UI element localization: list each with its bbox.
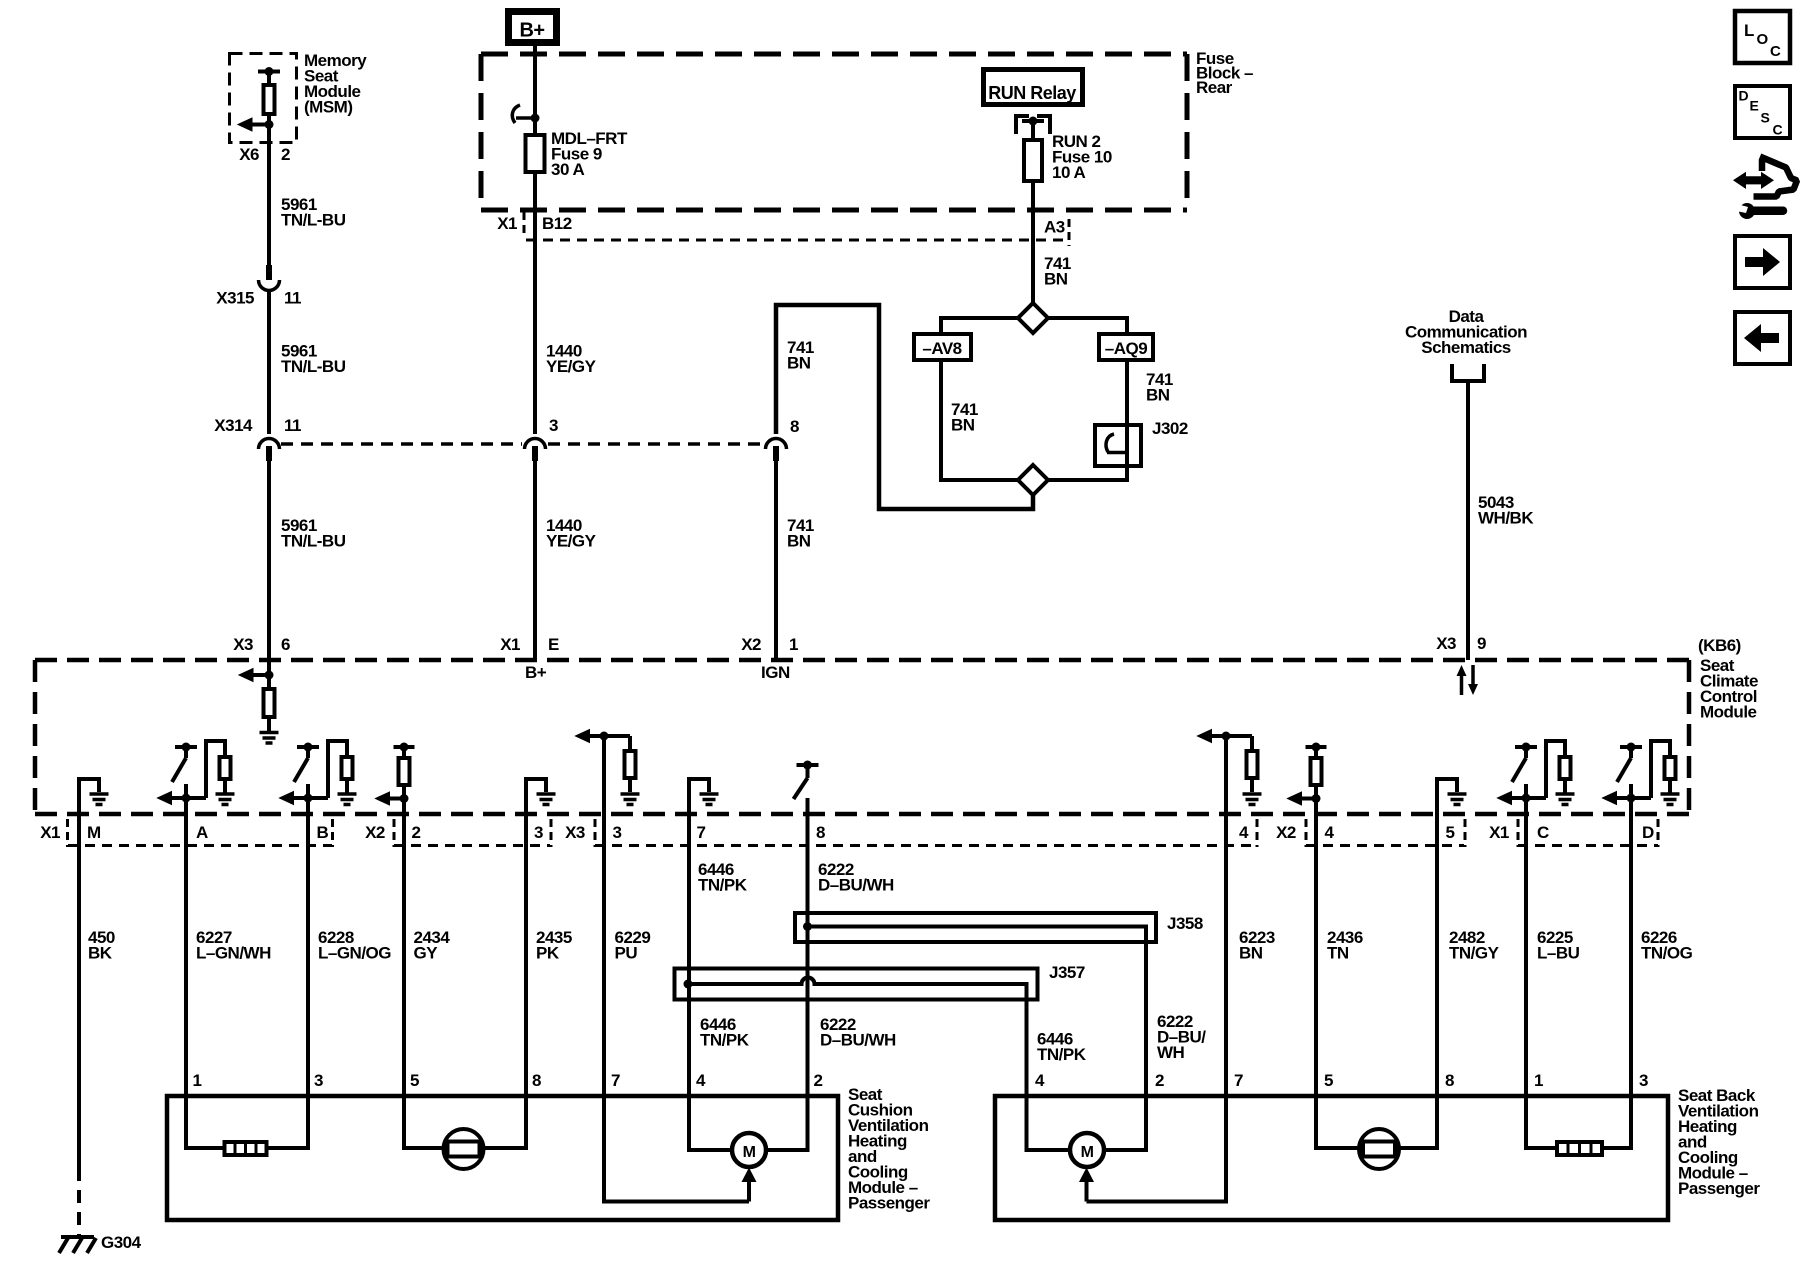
next page icon bbox=[1735, 236, 1790, 288]
SCCM top pin labels X2 1 / IGN bbox=[741, 635, 798, 682]
svg-text:X1: X1 bbox=[500, 635, 520, 654]
ground bbox=[216, 794, 235, 805]
wire 2482 TN/GY bbox=[1399, 816, 1437, 1148]
Seat Back module box bbox=[995, 1096, 1668, 1220]
svg-text:B: B bbox=[317, 823, 329, 842]
blower motor left bbox=[732, 1133, 766, 1167]
svg-text:L–GN/WH: L–GN/WH bbox=[196, 944, 271, 963]
wire label 741 BN bbox=[787, 516, 814, 551]
splice J357 box bbox=[675, 969, 1038, 1000]
motor feed arrow left bbox=[742, 1168, 757, 1202]
LOC icon bbox=[1735, 11, 1790, 63]
wire 6226 TN/OG bbox=[1602, 816, 1631, 1148]
wire loop return 741 BN bbox=[776, 305, 1033, 509]
wire 2435 PK bbox=[484, 816, 527, 1148]
svg-text:X1: X1 bbox=[40, 823, 60, 842]
wire label 6223 BN bbox=[1239, 928, 1275, 963]
Data Communication Schematics label bbox=[1405, 307, 1527, 357]
svg-text:3: 3 bbox=[549, 416, 558, 435]
wire 6225 L-BU bbox=[1526, 816, 1557, 1148]
svg-text:7: 7 bbox=[611, 1071, 620, 1090]
SCCM driver output X3-3 bbox=[576, 730, 636, 817]
wire 2436 TN bbox=[1316, 816, 1359, 1148]
dashed link X314 row bbox=[281, 442, 763, 446]
svg-text:2: 2 bbox=[281, 145, 290, 164]
ground internal X3-6 bbox=[260, 733, 279, 744]
MSM internal resistor bbox=[264, 72, 275, 115]
wire label 741 BN bbox=[951, 400, 978, 435]
svg-text:BN: BN bbox=[951, 416, 975, 435]
svg-text:YE/GY: YE/GY bbox=[546, 532, 597, 551]
fuse MDL-FRT Fuse 9 30A bbox=[526, 135, 545, 172]
svg-text:4: 4 bbox=[696, 1071, 706, 1090]
ground bbox=[537, 794, 556, 805]
wire 741 BN to SCCM IGN bbox=[774, 455, 778, 660]
svg-text:8: 8 bbox=[790, 417, 799, 436]
wire label 5961 TN/L-BU bbox=[281, 195, 346, 230]
svg-text:X1: X1 bbox=[1489, 823, 1509, 842]
SCCM top pin labels X3 6 bbox=[233, 635, 290, 654]
svg-text:TN/OG: TN/OG bbox=[1641, 944, 1693, 963]
svg-text:1: 1 bbox=[789, 635, 798, 654]
svg-text:10 A: 10 A bbox=[1052, 163, 1086, 182]
X6 pin label bbox=[239, 145, 290, 164]
svg-text:M: M bbox=[1081, 1144, 1094, 1161]
svg-text:G304: G304 bbox=[101, 1233, 142, 1252]
svg-text:PK: PK bbox=[536, 944, 560, 963]
wire diamond to -AV8 bbox=[941, 318, 1018, 334]
SCCM ground output X2-3 bbox=[526, 777, 546, 816]
SCCM switch output A bbox=[158, 741, 231, 816]
wire label 741 BN bbox=[1146, 370, 1173, 405]
svg-text:C: C bbox=[1537, 823, 1549, 842]
wire 6222 D-BU/WH upper bbox=[806, 816, 810, 1150]
svg-text:A3: A3 bbox=[1044, 218, 1065, 237]
svg-text:WH: WH bbox=[1157, 1043, 1185, 1062]
svg-text:Schematics: Schematics bbox=[1421, 338, 1511, 357]
wire label 1440 YE/GY bbox=[546, 342, 597, 377]
svg-text:Rear: Rear bbox=[1196, 78, 1233, 97]
wire -AQ9 to J302 bbox=[1125, 360, 1129, 480]
svg-text:C: C bbox=[1770, 43, 1781, 60]
svg-text:BN: BN bbox=[1044, 270, 1068, 289]
wire MSM X6 pin 2 bbox=[267, 125, 271, 266]
wire label 741 BN bbox=[787, 338, 814, 373]
svg-text:RUN Relay: RUN Relay bbox=[988, 83, 1076, 103]
wire label 741 BN bbox=[1044, 254, 1071, 289]
SCCM ground output X1-M bbox=[79, 777, 99, 816]
ground bbox=[1556, 794, 1575, 805]
fuse RUN 2 Fuse 10 10A bbox=[1024, 140, 1042, 181]
wire 2434 GY bbox=[404, 816, 444, 1148]
connector dashed row under fuse block bbox=[524, 212, 1069, 246]
wire 5961 X315 to X314 bbox=[267, 292, 271, 434]
right module pin labels bbox=[1035, 1071, 1648, 1090]
svg-text:X3: X3 bbox=[233, 635, 253, 654]
svg-text:7: 7 bbox=[1234, 1071, 1243, 1090]
Memory Seat Module (MSM) dashed box bbox=[230, 54, 297, 143]
svg-text:6: 6 bbox=[281, 635, 290, 654]
wire 6228 L-GN/OG bbox=[267, 816, 308, 1148]
connector X1 B12 labels bbox=[497, 214, 572, 233]
ground bbox=[700, 794, 719, 805]
svg-text:X1: X1 bbox=[497, 214, 517, 233]
svg-text:Module: Module bbox=[1700, 703, 1757, 722]
splice J357 internal wire with hop bbox=[684, 978, 1071, 1150]
svg-text:8: 8 bbox=[532, 1071, 541, 1090]
wire label 6446 TN/PK lower-right bbox=[1037, 1030, 1087, 1065]
svg-text:1: 1 bbox=[1534, 1071, 1543, 1090]
svg-text:L: L bbox=[1744, 21, 1754, 40]
svg-text:B+: B+ bbox=[519, 20, 544, 42]
inline connector X314 pin 11 bbox=[259, 439, 280, 462]
svg-text:11: 11 bbox=[284, 289, 301, 308]
left module wires to motor bbox=[689, 1146, 808, 1150]
SCCM bottom connector labels bbox=[40, 823, 1654, 842]
wire label 1440 YE/GY bbox=[546, 516, 597, 551]
wire label 450 BK bbox=[88, 928, 115, 963]
svg-text:YE/GY: YE/GY bbox=[546, 357, 597, 376]
terminal -AQ9 bbox=[1099, 334, 1153, 360]
svg-text:5: 5 bbox=[410, 1071, 419, 1090]
SCCM switch output X3-8 bbox=[794, 761, 819, 817]
ground G304 bbox=[59, 1237, 96, 1253]
wire 1440 B12 to pin3 connector bbox=[533, 250, 537, 434]
svg-text:TN/PK: TN/PK bbox=[700, 1031, 750, 1050]
wire B+ into fuse block bbox=[533, 46, 537, 135]
svg-text:2: 2 bbox=[412, 823, 421, 842]
wire 1440 to SCCM B+ bbox=[533, 455, 537, 660]
X315 label bbox=[216, 289, 301, 308]
svg-text:X314: X314 bbox=[214, 416, 253, 435]
svg-text:4: 4 bbox=[1035, 1071, 1045, 1090]
svg-text:–AV8: –AV8 bbox=[922, 339, 961, 358]
SCCM switch output C bbox=[1498, 741, 1571, 816]
svg-text:M: M bbox=[87, 823, 101, 842]
relay contact brackets bbox=[1016, 116, 1050, 134]
svg-text:TN/GY: TN/GY bbox=[1449, 944, 1500, 963]
Fuse Block - Rear dashed box bbox=[481, 54, 1187, 210]
svg-text:Passenger: Passenger bbox=[1678, 1179, 1760, 1198]
wire label 2482 TN/GY bbox=[1449, 928, 1500, 963]
fuse 10 label bbox=[1052, 132, 1112, 182]
wire label 6226 TN/OG bbox=[1641, 928, 1693, 963]
SCCM sensor input X2-4 bbox=[1288, 743, 1327, 817]
wire 6446 TN/PK upper bbox=[687, 816, 691, 1148]
wire 741 BN A3 to diamond bbox=[1031, 240, 1035, 305]
svg-text:X2: X2 bbox=[365, 823, 385, 842]
svg-text:X3: X3 bbox=[565, 823, 585, 842]
wire 450 BK bbox=[77, 816, 81, 1236]
splice diamond top bbox=[1018, 303, 1048, 333]
Seat Cushion module box bbox=[167, 1096, 838, 1220]
svg-text:BK: BK bbox=[88, 944, 113, 963]
previous page icon bbox=[1735, 312, 1790, 364]
svg-text:2: 2 bbox=[814, 1071, 823, 1090]
svg-text:2: 2 bbox=[1155, 1071, 1164, 1090]
svg-text:J302: J302 bbox=[1152, 419, 1188, 438]
wire J302 corner to diamond bbox=[1048, 466, 1127, 480]
ground bbox=[621, 794, 640, 805]
ground bbox=[338, 794, 357, 805]
svg-text:1: 1 bbox=[193, 1071, 202, 1090]
wire fuse9 to X1 B12 bbox=[533, 172, 537, 250]
wire label 6228 L-GN/OG bbox=[318, 928, 391, 963]
wire label 6446 TN/PK bbox=[698, 860, 748, 895]
svg-text:O: O bbox=[1757, 31, 1769, 48]
KB6 module label bbox=[1698, 636, 1758, 722]
X314 label bbox=[214, 416, 301, 435]
fuse 9 label bbox=[551, 129, 628, 179]
wire diamond to -AQ9 bbox=[1048, 318, 1127, 334]
DESC icon bbox=[1735, 86, 1790, 138]
inline connector pin 3 bbox=[525, 439, 546, 462]
ground bbox=[1243, 794, 1262, 805]
ground bbox=[1448, 794, 1467, 805]
splice J302 bbox=[1095, 425, 1141, 466]
RUN Relay box bbox=[984, 70, 1083, 105]
B+ power terminal bbox=[509, 12, 557, 43]
wire label 6229 PU bbox=[615, 928, 651, 963]
SCCM top pin labels X3 9 bbox=[1436, 634, 1486, 653]
svg-text:S: S bbox=[1761, 110, 1770, 126]
svg-text:J357: J357 bbox=[1049, 963, 1085, 982]
svg-text:X3: X3 bbox=[1436, 634, 1456, 653]
svg-text:4: 4 bbox=[1325, 823, 1335, 842]
left module pin labels bbox=[193, 1071, 823, 1090]
svg-text:E: E bbox=[548, 635, 559, 654]
svg-text:TN/PK: TN/PK bbox=[1037, 1045, 1087, 1064]
splice J358 box bbox=[795, 913, 1156, 942]
svg-text:–AQ9: –AQ9 bbox=[1105, 339, 1147, 358]
heater element right bbox=[1557, 1142, 1602, 1155]
wire fuse10 to A3 bbox=[1031, 179, 1035, 240]
wire 6223 BN bbox=[1087, 816, 1227, 1202]
thermal limiter right bbox=[1359, 1129, 1399, 1169]
MSM label bbox=[304, 51, 367, 117]
heater element left bbox=[225, 1142, 267, 1155]
SCCM switch output D bbox=[1603, 741, 1676, 816]
svg-text:J358: J358 bbox=[1167, 914, 1203, 933]
wire 6229 PU bbox=[604, 816, 749, 1202]
wire 5043 WH/BK bbox=[1466, 381, 1470, 660]
wire 6227 L-GN/WH bbox=[186, 816, 224, 1148]
svg-text:11: 11 bbox=[284, 416, 301, 435]
MSM output arrow bbox=[238, 114, 274, 131]
thermal limiter left bbox=[444, 1129, 484, 1169]
svg-text:D–BU/WH: D–BU/WH bbox=[818, 876, 894, 895]
svg-text:8: 8 bbox=[816, 823, 825, 842]
svg-text:3: 3 bbox=[613, 823, 622, 842]
svg-text:BN: BN bbox=[1239, 944, 1263, 963]
ground bbox=[1661, 794, 1680, 805]
SCCM driver output X3-4 bbox=[1198, 730, 1258, 817]
inline connector X315 pin 11 bbox=[259, 265, 280, 291]
svg-text:3: 3 bbox=[1639, 1071, 1648, 1090]
svg-text:(MSM): (MSM) bbox=[304, 98, 352, 117]
svg-text:TN/PK: TN/PK bbox=[698, 876, 748, 895]
wire -AV8 down bbox=[941, 359, 1018, 480]
svg-text:TN/L-BU: TN/L-BU bbox=[281, 357, 346, 376]
MSM internal component: top bar bbox=[258, 67, 280, 76]
svg-text:8: 8 bbox=[1445, 1071, 1454, 1090]
svg-text:GY: GY bbox=[414, 944, 439, 963]
svg-text:30 A: 30 A bbox=[551, 160, 585, 179]
SCCM ground output X2-5 bbox=[1437, 777, 1457, 816]
svg-text:L–GN/OG: L–GN/OG bbox=[318, 944, 391, 963]
SCCM sensor input X2-2 bbox=[376, 743, 415, 817]
connector group dashed outlines bbox=[68, 819, 1659, 847]
svg-text:PU: PU bbox=[615, 944, 638, 963]
svg-text:WH/BK: WH/BK bbox=[1478, 509, 1534, 528]
SCCM top pin labels X1 E / B+ bbox=[500, 635, 559, 682]
svg-text:TN: TN bbox=[1327, 944, 1349, 963]
svg-text:A: A bbox=[196, 823, 208, 842]
motor feed arrow right bbox=[1079, 1168, 1094, 1202]
splice diamond bottom bbox=[1018, 465, 1048, 495]
svg-text:5: 5 bbox=[1446, 823, 1455, 842]
wire label 2434 GY bbox=[414, 928, 451, 963]
SCCM switch output B bbox=[280, 741, 353, 816]
schematic tools icon bbox=[1733, 157, 1797, 220]
svg-text:X2: X2 bbox=[1276, 823, 1296, 842]
svg-text:B+: B+ bbox=[525, 663, 547, 682]
svg-text:5: 5 bbox=[1324, 1071, 1333, 1090]
svg-text:C: C bbox=[1773, 122, 1783, 138]
svg-text:X6: X6 bbox=[239, 145, 259, 164]
SCCM input resistor X3-6 bbox=[239, 660, 275, 731]
svg-text:9: 9 bbox=[1477, 634, 1486, 653]
Fuse Block - Rear label bbox=[1196, 49, 1253, 97]
wire label 5961 TN/L-BU bbox=[281, 516, 346, 551]
wire label 2435 PK bbox=[536, 928, 572, 963]
wire 5961 X314 to SCCM bbox=[267, 455, 271, 660]
wire label 2436 TN bbox=[1327, 928, 1363, 963]
Seat Cushion module label bbox=[848, 1085, 930, 1213]
bidirectional data arrows bbox=[1457, 665, 1479, 695]
svg-text:TN/L-BU: TN/L-BU bbox=[281, 211, 346, 230]
wire relay to fuse10 bbox=[1031, 121, 1035, 140]
blower motor right bbox=[1070, 1133, 1104, 1167]
svg-text:BN: BN bbox=[787, 354, 811, 373]
svg-text:E: E bbox=[1750, 98, 1759, 114]
svg-text:7: 7 bbox=[697, 823, 706, 842]
wire label 6225 L-BU bbox=[1537, 928, 1580, 963]
SCCM ground output X3-7 bbox=[689, 777, 709, 816]
wire label 5961 TN/L-BU bbox=[281, 342, 346, 377]
svg-text:M: M bbox=[743, 1144, 756, 1161]
svg-text:D: D bbox=[1739, 88, 1749, 104]
svg-text:X315: X315 bbox=[216, 289, 254, 308]
svg-text:IGN: IGN bbox=[761, 663, 790, 682]
svg-text:BN: BN bbox=[787, 532, 811, 551]
wire label 6222 D-BU/WH lower-left bbox=[820, 1015, 896, 1050]
wire label 5043 WH/BK bbox=[1478, 493, 1534, 528]
terminal -AV8 bbox=[914, 334, 971, 360]
svg-text:L–BU: L–BU bbox=[1537, 944, 1580, 963]
fuse 9 clip hook bbox=[512, 105, 539, 123]
svg-text:B12: B12 bbox=[542, 214, 572, 233]
svg-text:TN/L-BU: TN/L-BU bbox=[281, 532, 346, 551]
Seat Back module label bbox=[1678, 1086, 1760, 1198]
Seat Climate Control Module dashed box (KB6) bbox=[35, 660, 1689, 814]
wire label 6446 TN/PK lower-left bbox=[700, 1015, 750, 1050]
off-page connector bracket bbox=[1452, 364, 1484, 381]
inline connector pin 8 bbox=[766, 439, 787, 462]
wire label 6222 D-BU/WH bbox=[818, 860, 894, 895]
ground bbox=[90, 794, 109, 805]
svg-text:X2: X2 bbox=[741, 635, 761, 654]
svg-text:BN: BN bbox=[1146, 386, 1170, 405]
svg-text:D: D bbox=[1642, 823, 1654, 842]
svg-text:3: 3 bbox=[314, 1071, 323, 1090]
svg-text:4: 4 bbox=[1239, 823, 1249, 842]
svg-text:Passenger: Passenger bbox=[848, 1194, 930, 1213]
svg-text:3: 3 bbox=[534, 823, 543, 842]
wire label 6222 D-BU/WH lower-right bbox=[1157, 1012, 1206, 1062]
wire label 6227 L-GN/WH bbox=[196, 928, 271, 963]
svg-text:D–BU/WH: D–BU/WH bbox=[820, 1031, 896, 1050]
svg-text:(KB6): (KB6) bbox=[1698, 636, 1741, 655]
splice J358 internal wire bbox=[803, 922, 1146, 1150]
